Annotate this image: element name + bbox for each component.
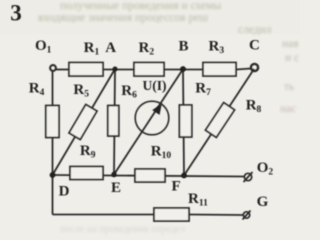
svg-text:D: D: [59, 183, 70, 199]
svg-text:ная: ная: [282, 38, 299, 50]
svg-text:F: F: [172, 178, 181, 194]
svg-text:3: 3: [10, 1, 21, 26]
svg-text:ть: ть: [284, 81, 294, 93]
svg-text:нас: нас: [280, 103, 296, 115]
svg-text:E: E: [111, 180, 121, 196]
svg-text:A: A: [105, 40, 116, 56]
svg-text:B: B: [179, 38, 189, 54]
svg-text:полученные проведения и схе: полученные проведения и схемы: [60, 0, 221, 12]
svg-text:C: C: [249, 37, 260, 53]
svg-text:и с: и с: [285, 52, 299, 64]
svg-text:входящие значения процессо: входящие значения процессов реш: [38, 12, 208, 24]
svg-text:после на проведения определ: после на проведения определ: [60, 224, 185, 235]
svg-text:следил: следил: [238, 24, 272, 36]
svg-text:G: G: [257, 194, 269, 210]
svg-text:U(I): U(I): [143, 78, 167, 93]
